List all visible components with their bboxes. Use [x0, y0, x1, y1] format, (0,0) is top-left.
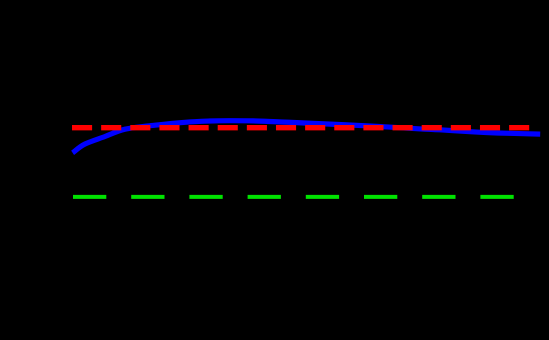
green dashed horizontal line [73, 195, 514, 199]
blue solid curve [73, 121, 541, 153]
red dashed horizontal line [72, 125, 529, 130]
